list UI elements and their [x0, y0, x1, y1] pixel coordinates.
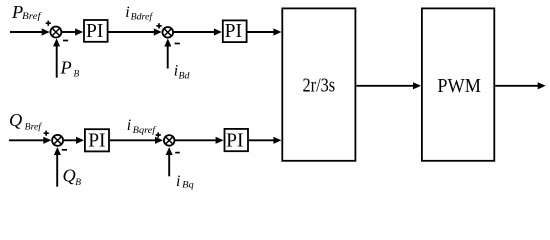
svg-text:Bref: Bref: [22, 11, 42, 22]
svg-text:PWM: PWM: [437, 75, 481, 97]
svg-text:i: i: [125, 4, 129, 21]
svg-text:Bqref: Bqref: [133, 125, 157, 136]
svg-text:Bd: Bd: [179, 71, 190, 81]
svg-text:PI: PI: [225, 21, 242, 42]
svg-text:i: i: [174, 62, 178, 79]
svg-text:Bdref: Bdref: [131, 11, 154, 22]
svg-text:PI: PI: [86, 21, 103, 42]
svg-text:P: P: [60, 58, 72, 78]
svg-text:PI: PI: [226, 131, 243, 152]
svg-text:Bq: Bq: [182, 181, 194, 191]
svg-text:Q: Q: [63, 165, 76, 185]
svg-text:Bref: Bref: [25, 122, 43, 133]
svg-text:B: B: [74, 70, 80, 80]
svg-text:2r/3s: 2r/3s: [303, 75, 336, 97]
svg-text:i: i: [127, 117, 131, 134]
svg-text:B: B: [75, 178, 81, 188]
svg-text:i: i: [176, 173, 180, 190]
svg-text:Q: Q: [9, 110, 22, 130]
svg-text:PI: PI: [88, 130, 105, 151]
